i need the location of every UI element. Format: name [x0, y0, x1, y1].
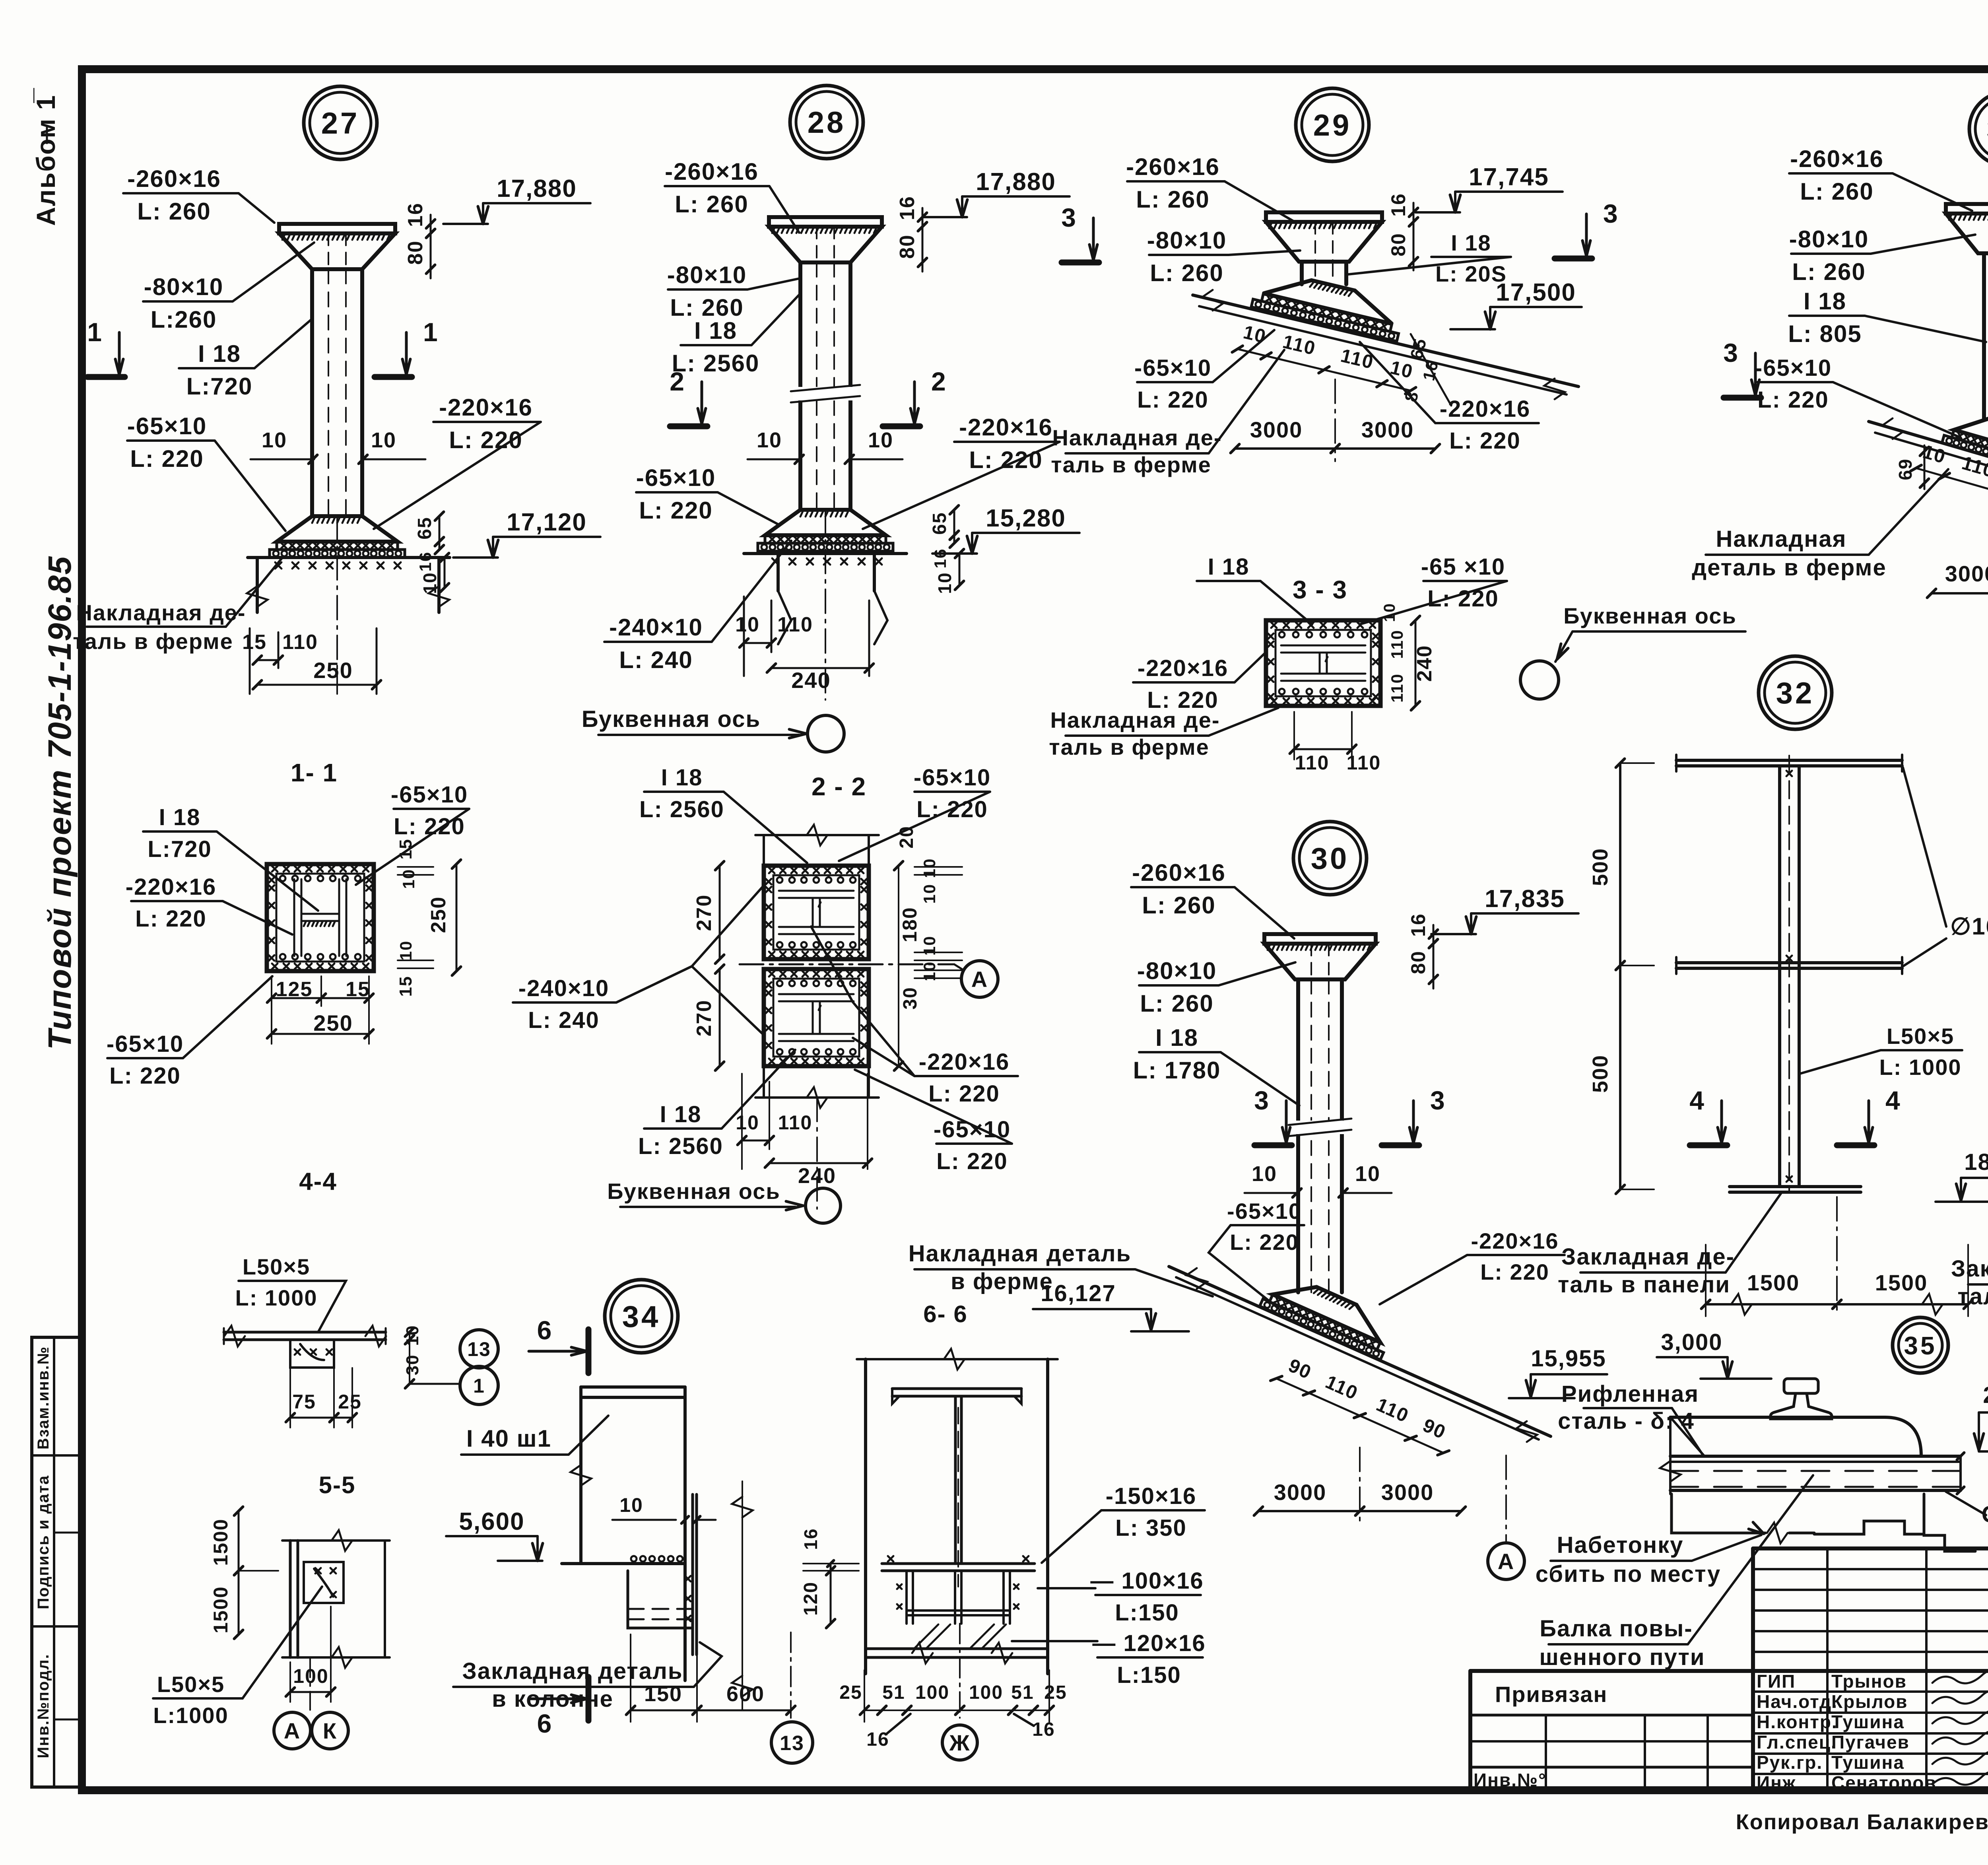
svg-text:L: 220: L: 220	[1230, 1230, 1299, 1255]
svg-text:L50×5: L50×5	[1887, 1024, 1954, 1049]
section 6-6 column outline	[864, 1359, 867, 1674]
svg-text:∅16: ∅16	[1950, 913, 1988, 940]
svg-text:2: 2	[931, 367, 947, 396]
svg-text:3: 3	[1061, 203, 1077, 232]
section mark 3 right (29)	[1555, 256, 1592, 262]
dims 270 (2-2)	[719, 866, 721, 959]
svg-text:L: 260: L: 260	[1136, 186, 1209, 213]
svg-text:-220×16: -220×16	[959, 414, 1053, 441]
svg-text:270: 270	[693, 894, 716, 931]
svg-text:I 18: I 18	[1451, 230, 1491, 255]
svg-text:15,280: 15,280	[986, 505, 1066, 532]
svg-text:L:720: L:720	[148, 836, 212, 862]
svg-text:I 18: I 18	[198, 340, 241, 367]
svg-text:-65×10: -65×10	[1755, 355, 1832, 381]
svg-text:10: 10	[399, 869, 418, 889]
svg-text:90: 90	[1285, 1355, 1315, 1383]
svg-text:Балка повы-: Балка повы-	[1540, 1616, 1693, 1642]
svg-text:-260×16: -260×16	[1132, 859, 1226, 886]
svg-text:-220×16: -220×16	[1138, 655, 1228, 681]
detail 29 bubble	[1296, 88, 1369, 161]
svg-text:30: 30	[403, 1354, 422, 1375]
svg-text:6- 6: 6- 6	[923, 1301, 967, 1327]
svg-text:L50×5: L50×5	[243, 1254, 310, 1279]
svg-text:3: 3	[1254, 1086, 1270, 1115]
svg-text:I 18: I 18	[159, 804, 201, 830]
svg-text:10: 10	[1381, 603, 1398, 622]
svg-text:таль в ферме: таль в ферме	[1051, 452, 1211, 477]
svg-text:16: 16	[1407, 913, 1429, 937]
svg-text:Ж: Ж	[949, 1730, 971, 1755]
svg-text:I 18: I 18	[661, 765, 703, 791]
svg-text:3000: 3000	[1250, 417, 1303, 442]
svg-text:10: 10	[371, 428, 396, 452]
svg-text:I 18: I 18	[1208, 554, 1250, 580]
bottom plate -150x16 (6-6)	[882, 1562, 1035, 1565]
svg-text:-220×16: -220×16	[439, 394, 533, 421]
svg-text:10: 10	[1355, 1162, 1380, 1186]
svg-text:90: 90	[1420, 1415, 1449, 1443]
axis circle Zh (6-6)	[959, 1624, 961, 1718]
svg-text:-240×10: -240×10	[518, 975, 609, 1001]
svg-text:Накладная де-: Накладная де-	[76, 600, 246, 625]
dim 16/80 (30 cap)	[1433, 934, 1435, 944]
svg-text:13: 13	[780, 1732, 804, 1755]
svg-text:L: 260: L: 260	[1792, 258, 1866, 285]
dim 100 (5-5)	[290, 1691, 331, 1693]
svg-text:10: 10	[735, 613, 760, 636]
dims 75/25 (4-4)	[290, 1417, 334, 1419]
title block staff grid	[1753, 1568, 1988, 1570]
embedded angle (4-4)	[290, 1340, 334, 1368]
detail 27 base plates	[277, 516, 398, 542]
svg-text:10: 10	[868, 428, 893, 452]
svg-text:L: 260: L: 260	[675, 191, 748, 218]
svg-text:I 40 ш1: I 40 ш1	[466, 1425, 551, 1452]
detail 28 cap plate -260x16	[769, 217, 882, 227]
detail 30 tilted base	[1260, 1269, 1397, 1360]
svg-text:110: 110	[1388, 629, 1406, 659]
svg-text:таль в плите: таль в плите	[1957, 1284, 1988, 1309]
svg-text:Набетонку: Набетонку	[1557, 1532, 1684, 1558]
svg-text:25: 25	[839, 1682, 862, 1703]
svg-text:110: 110	[1959, 453, 1988, 482]
detail 29 tilted base on sloped chord	[1251, 268, 1406, 341]
elevation 5,600 (34)	[538, 1543, 543, 1561]
section 3-3 box	[1266, 620, 1380, 706]
svg-text:10: 10	[1252, 1162, 1277, 1186]
svg-text:-260×16: -260×16	[1126, 153, 1220, 180]
svg-text:17,500: 17,500	[1496, 279, 1576, 306]
dim 3000 3000 (31)	[1932, 592, 1988, 594]
svg-text:-220×16: -220×16	[919, 1049, 1010, 1075]
svg-text:10: 10	[1241, 322, 1268, 348]
svg-text:6: 6	[537, 1315, 553, 1345]
svg-text:240: 240	[1413, 645, 1436, 682]
dim 16/80 (29 cap)	[1413, 212, 1415, 222]
elevation 17,500 (29)	[1490, 312, 1495, 329]
embedded plate (34)	[691, 1494, 694, 1655]
elevation 17,120 (27)	[493, 540, 498, 558]
detail 31 cap plate	[1946, 204, 1988, 214]
svg-text:3000: 3000	[1274, 1480, 1327, 1505]
svg-text:15: 15	[346, 978, 370, 1001]
svg-text:3000: 3000	[1381, 1480, 1434, 1505]
dims right (1-1)	[456, 864, 458, 971]
embedded angle (5-5)	[304, 1562, 344, 1603]
svg-text:L: 260: L: 260	[1150, 260, 1223, 286]
svg-text:10 10: 10 10	[920, 935, 939, 981]
dims (3-3)	[1294, 748, 1352, 750]
detail 28 truss chord	[744, 552, 907, 555]
svg-text:120: 120	[800, 1581, 821, 1616]
svg-text:Закладная деталь: Закладная деталь	[462, 1658, 683, 1684]
svg-text:17,880: 17,880	[497, 175, 577, 202]
svg-text:К: К	[323, 1718, 337, 1743]
svg-text:шенного пути: шенного пути	[1539, 1644, 1705, 1670]
svg-text:3: 3	[1430, 1086, 1446, 1115]
concrete steps (35)	[1672, 1494, 1765, 1533]
svg-text:110: 110	[777, 613, 813, 636]
dim 10 (27 base)	[444, 558, 446, 588]
svg-text:L: 260: L: 260	[1140, 990, 1213, 1017]
svg-text:25: 25	[1044, 1682, 1067, 1703]
svg-text:110: 110	[1373, 1394, 1412, 1427]
lower block (34)	[628, 1571, 693, 1628]
svg-text:-150×16: -150×16	[1106, 1483, 1196, 1509]
detail 29 sloped truss chord	[1193, 295, 1578, 387]
detail 27 cap plate -260x16	[279, 224, 395, 233]
axis circles A K (5-5)	[309, 1657, 311, 1710]
section mark 1 left (27)	[87, 374, 125, 380]
svg-text:Копировал Балакирева: Копировал Балакирева	[1736, 1810, 1988, 1834]
svg-text:L: 2560: L: 2560	[639, 797, 724, 822]
svg-text:L: 260: L: 260	[1800, 178, 1873, 205]
dim 3000 3000 (29)	[1235, 447, 1335, 450]
svg-text:Инв.№подл.: Инв.№подл.	[35, 1653, 52, 1758]
svg-text:4: 4	[1689, 1086, 1705, 1115]
svg-text:L: 260: L: 260	[670, 294, 744, 321]
svg-text:51: 51	[882, 1682, 905, 1703]
dim 10 110 240 (28 bottom)	[743, 596, 745, 676]
svg-text:А: А	[1498, 1549, 1514, 1574]
svg-text:17,745: 17,745	[1469, 163, 1549, 191]
dims along slope (30)	[1270, 1350, 1459, 1459]
detail 32 bubble	[1759, 656, 1832, 729]
svg-text:65: 65	[414, 517, 435, 539]
svg-text:10: 10	[396, 940, 415, 961]
svg-text:L: 1000: L: 1000	[1879, 1055, 1962, 1080]
dims below (1-1)	[272, 997, 321, 999]
svg-text:-260×16: -260×16	[127, 165, 221, 192]
svg-text:16: 16	[416, 552, 435, 572]
svg-text:1- 1: 1- 1	[291, 758, 338, 787]
dim 16 / 80 (27 cap)	[430, 224, 432, 233]
detail 27 centerline	[336, 516, 338, 694]
dim 10|10 (30 shaft)	[1244, 1192, 1297, 1194]
svg-text:16: 16	[1032, 1719, 1055, 1740]
axis circle A (30)	[1505, 1455, 1507, 1543]
svg-text:10: 10	[262, 428, 287, 452]
svg-text:Буквенная ось: Буквенная ось	[582, 706, 761, 732]
svg-text:-80×10: -80×10	[1789, 226, 1869, 253]
svg-text:4-4: 4-4	[299, 1168, 337, 1195]
detail 32 top flange	[1676, 759, 1902, 762]
svg-text:L: 260: L: 260	[1142, 892, 1215, 919]
section mark 3 left (31)	[1724, 395, 1761, 401]
svg-text:L: 1780: L: 1780	[1133, 1057, 1221, 1084]
svg-text:80: 80	[896, 234, 919, 259]
svg-text:18,300: 18,300	[1964, 1149, 1988, 1175]
svg-text:I 18: I 18	[694, 317, 737, 344]
svg-text:Пугачев: Пугачев	[1831, 1732, 1910, 1752]
left margin stamp table	[32, 1337, 82, 1787]
svg-text:30: 30	[1311, 842, 1349, 876]
svg-text:Рук.гр.: Рук.гр.	[1757, 1752, 1823, 1773]
svg-text:1500: 1500	[210, 1518, 232, 1566]
detail 31 bubble	[1969, 92, 1988, 165]
svg-text:L: 220: L: 220	[639, 497, 712, 524]
svg-text:110: 110	[778, 1111, 813, 1134]
svg-text:Нач.отд.: Нач.отд.	[1757, 1691, 1838, 1712]
detail 29 cap plate	[1266, 212, 1382, 222]
svg-text:Накладная де-: Накладная де-	[1050, 707, 1220, 732]
svg-text:— 100×16: — 100×16	[1090, 1568, 1204, 1594]
svg-text:15: 15	[242, 631, 267, 654]
svg-text:10: 10	[419, 572, 440, 594]
svg-text:25: 25	[338, 1391, 362, 1413]
svg-text:-65×10: -65×10	[636, 464, 716, 491]
section mark 6 upper (34)	[586, 1329, 592, 1373]
svg-text:деталь в ферме: деталь в ферме	[1692, 555, 1886, 581]
svg-text:17,835: 17,835	[1485, 885, 1565, 913]
svg-text:2 - 2: 2 - 2	[812, 772, 866, 801]
detail 30 cap plate	[1264, 934, 1376, 944]
svg-text:110: 110	[1339, 345, 1376, 373]
svg-text:L: 220: L: 220	[936, 1148, 1008, 1174]
svg-text:А: А	[971, 967, 988, 992]
dim 10|10 (28 shaft)	[747, 458, 800, 460]
svg-text:15,955: 15,955	[1531, 1346, 1606, 1372]
svg-text:270: 270	[693, 1000, 716, 1037]
detail 31 tilted base	[1942, 404, 1988, 478]
svg-text:-65×10: -65×10	[1134, 355, 1211, 381]
section 4-4 bar	[224, 1331, 386, 1334]
svg-text:L:150: L:150	[1115, 1600, 1179, 1626]
svg-text:80: 80	[1407, 950, 1429, 974]
svg-text:Накладная де-: Накладная де-	[1052, 425, 1222, 450]
svg-text:Н.контр.: Н.контр.	[1757, 1712, 1838, 1732]
detail 28 base plates	[765, 510, 886, 535]
svg-text:250: 250	[427, 896, 450, 933]
dim 1500 1500 (32)	[1706, 1303, 1837, 1305]
svg-text:L: 220: L: 220	[1137, 387, 1209, 413]
svg-text:150: 150	[644, 1682, 682, 1706]
svg-text:125: 125	[276, 978, 313, 1001]
svg-text:Типовой проект 705-1-196.85: Типовой проект 705-1-196.85	[42, 556, 78, 1050]
detail 27 bubble	[304, 86, 377, 159]
svg-text:L: 805: L: 805	[1788, 321, 1862, 347]
svg-text:I 18: I 18	[1804, 288, 1846, 315]
svg-text:10: 10	[934, 572, 955, 594]
svg-text:-80×10: -80×10	[667, 262, 747, 288]
svg-text:Накладная деталь: Накладная деталь	[909, 1241, 1132, 1267]
svg-text:-220×16: -220×16	[126, 874, 216, 900]
dims 10 110 240 (2-2 bottom)	[741, 1074, 743, 1169]
svg-text:10: 10	[757, 428, 782, 452]
posts -100x16 (6-6)	[905, 1571, 908, 1624]
svg-text:100: 100	[915, 1682, 949, 1703]
slab with rounded end (35)	[1670, 1417, 1921, 1456]
section mark 2 right (28)	[883, 424, 920, 429]
svg-text:-65×10: -65×10	[107, 1031, 184, 1057]
svg-text:80: 80	[404, 240, 427, 265]
dims 150/600 (34)	[631, 1710, 697, 1712]
detail 27 truss chord (ferma)	[248, 556, 450, 559]
svg-text:-65 ×10: -65 ×10	[1421, 554, 1505, 580]
svg-text:100: 100	[969, 1682, 1003, 1703]
svg-text:110: 110	[1388, 673, 1406, 703]
svg-text:L: 220: L: 220	[928, 1081, 1000, 1107]
svg-text:13: 13	[467, 1338, 491, 1360]
svg-text:75: 75	[292, 1391, 316, 1413]
dim 10|10 (27 shaft)	[250, 458, 314, 460]
section 1-1 square	[267, 864, 374, 971]
section 2-2 upper square	[763, 835, 765, 866]
dims along slope (31)	[1910, 439, 1988, 523]
svg-text:L:1000: L:1000	[153, 1703, 228, 1728]
dim 500/500 (32)	[1619, 763, 1621, 966]
svg-text:— 120×16: — 120×16	[1092, 1630, 1206, 1656]
svg-text:L: 1000: L: 1000	[235, 1285, 318, 1310]
svg-text:L: 220: L: 220	[109, 1063, 181, 1089]
svg-text:15: 15	[396, 839, 415, 860]
detail 30 shaft with break	[1296, 979, 1300, 1292]
svg-text:таль в ферме: таль в ферме	[73, 629, 233, 654]
dim 16 / 80 (28 cap)	[922, 217, 924, 227]
svg-text:Трынов: Трынов	[1831, 1671, 1907, 1692]
svg-text:в колонне: в колонне	[492, 1686, 613, 1712]
svg-text:таль в панели: таль в панели	[1558, 1272, 1730, 1298]
svg-text:2,800: 2,800	[1983, 1382, 1988, 1408]
detail 35 bubble	[1893, 1317, 1948, 1373]
detail 31 sloped truss chord	[1869, 422, 1988, 505]
svg-text:10: 10	[619, 1494, 643, 1516]
svg-text:L:720: L:720	[186, 373, 253, 400]
svg-text:35: 35	[1904, 1331, 1937, 1360]
svg-text:ГИП: ГИП	[1757, 1671, 1796, 1692]
svg-text:32: 32	[1776, 676, 1815, 710]
svg-text:L: 220: L: 220	[1449, 428, 1521, 454]
svg-text:1: 1	[423, 317, 439, 347]
svg-text:-65×10: -65×10	[391, 782, 468, 808]
svg-text:-80×10: -80×10	[1137, 958, 1217, 984]
svg-text:28: 28	[808, 106, 846, 140]
svg-text:16: 16	[866, 1729, 889, 1750]
detail 34 beam I40sh1	[581, 1385, 685, 1389]
svg-text:L: 220: L: 220	[1427, 586, 1499, 612]
svg-text:Накладная: Накладная	[1716, 526, 1847, 552]
detail 29 short shaft	[1300, 262, 1304, 284]
svg-text:Закладная де-: Закладная де-	[1951, 1256, 1988, 1282]
svg-text:10 10: 10 10	[920, 858, 939, 903]
svg-text:29: 29	[1313, 109, 1352, 142]
dim 65/16 (28 base)	[953, 510, 955, 535]
svg-text:16: 16	[896, 196, 919, 220]
svg-text:L:260: L:260	[151, 306, 217, 333]
svg-text:L:150: L:150	[1117, 1662, 1181, 1688]
svg-text:1: 1	[473, 1375, 485, 1397]
svg-text:5-5: 5-5	[319, 1472, 356, 1498]
svg-text:Буквенная ось: Буквенная ось	[607, 1179, 780, 1204]
svg-text:4: 4	[1885, 1086, 1901, 1115]
bottom lines (6-6)	[866, 1647, 1048, 1650]
svg-text:L: 350: L: 350	[1115, 1515, 1187, 1541]
svg-text:2: 2	[670, 367, 685, 396]
section 2-2 lower square	[764, 969, 869, 1066]
beam of raised track (35)	[1670, 1455, 1961, 1458]
svg-text:34: 34	[622, 1300, 661, 1334]
svg-text:110: 110	[282, 631, 318, 654]
svg-text:Рифленная: Рифленная	[1561, 1381, 1699, 1407]
section mark 3 right (30)	[1382, 1142, 1419, 1148]
svg-text:L: 240: L: 240	[619, 647, 693, 673]
svg-text:69: 69	[1895, 458, 1916, 480]
svg-text:1500: 1500	[210, 1586, 232, 1633]
svg-text:L: 2560: L: 2560	[638, 1133, 723, 1159]
section mark 3 left (30)	[1254, 1142, 1292, 1148]
svg-text:Альбом 1̅: Альбом 1̅	[31, 88, 60, 226]
svg-text:L50×5: L50×5	[157, 1672, 225, 1697]
svg-text:3000: 3000	[1945, 561, 1988, 586]
detail 27 shaft I18	[310, 269, 314, 516]
svg-text:L: 220: L: 220	[130, 445, 204, 472]
svg-text:сбить по месту: сбить по месту	[1536, 1561, 1721, 1587]
svg-text:250: 250	[313, 1010, 353, 1035]
elevation 17,835 (30)	[1471, 917, 1476, 934]
svg-text:3 - 3: 3 - 3	[1293, 575, 1347, 604]
detail 32 middle flange	[1676, 961, 1902, 964]
svg-text:I 18: I 18	[1155, 1024, 1198, 1051]
svg-text:L: 220: L: 220	[969, 447, 1043, 473]
svg-text:Тушина: Тушина	[1831, 1752, 1905, 1773]
title block outer	[1470, 1669, 1988, 1673]
svg-text:110: 110	[1281, 331, 1318, 359]
dims below (6-6)	[864, 1710, 882, 1711]
svg-text:-260×16: -260×16	[665, 158, 759, 185]
svg-text:-260×16: -260×16	[1790, 146, 1884, 172]
dims along slope (29)	[1232, 320, 1421, 396]
svg-text:10: 10	[1388, 357, 1415, 383]
axis circle 13 (34)	[790, 1632, 792, 1718]
circles 13 and 1 (4-4)	[460, 1330, 498, 1368]
elevation 17,745 (29)	[1455, 195, 1460, 212]
svg-text:3,000: 3,000	[1661, 1329, 1722, 1355]
svg-text:А: А	[284, 1718, 301, 1743]
svg-text:51: 51	[1011, 1682, 1034, 1703]
section mark 1 right (27)	[375, 374, 412, 380]
section 5-5 panel	[289, 1541, 292, 1657]
section mark 3 left (29)	[1062, 260, 1099, 266]
detail 32 bottom plate	[1730, 1185, 1861, 1188]
svg-text:500: 500	[1588, 848, 1612, 886]
svg-text:16: 16	[1387, 193, 1409, 217]
svg-text:17,120: 17,120	[507, 509, 587, 536]
svg-text:Гл.спец.: Гл.спец.	[1757, 1732, 1837, 1752]
detail 28 bubble	[790, 85, 863, 159]
svg-text:180: 180	[899, 907, 921, 942]
svg-text:110: 110	[1295, 752, 1330, 774]
